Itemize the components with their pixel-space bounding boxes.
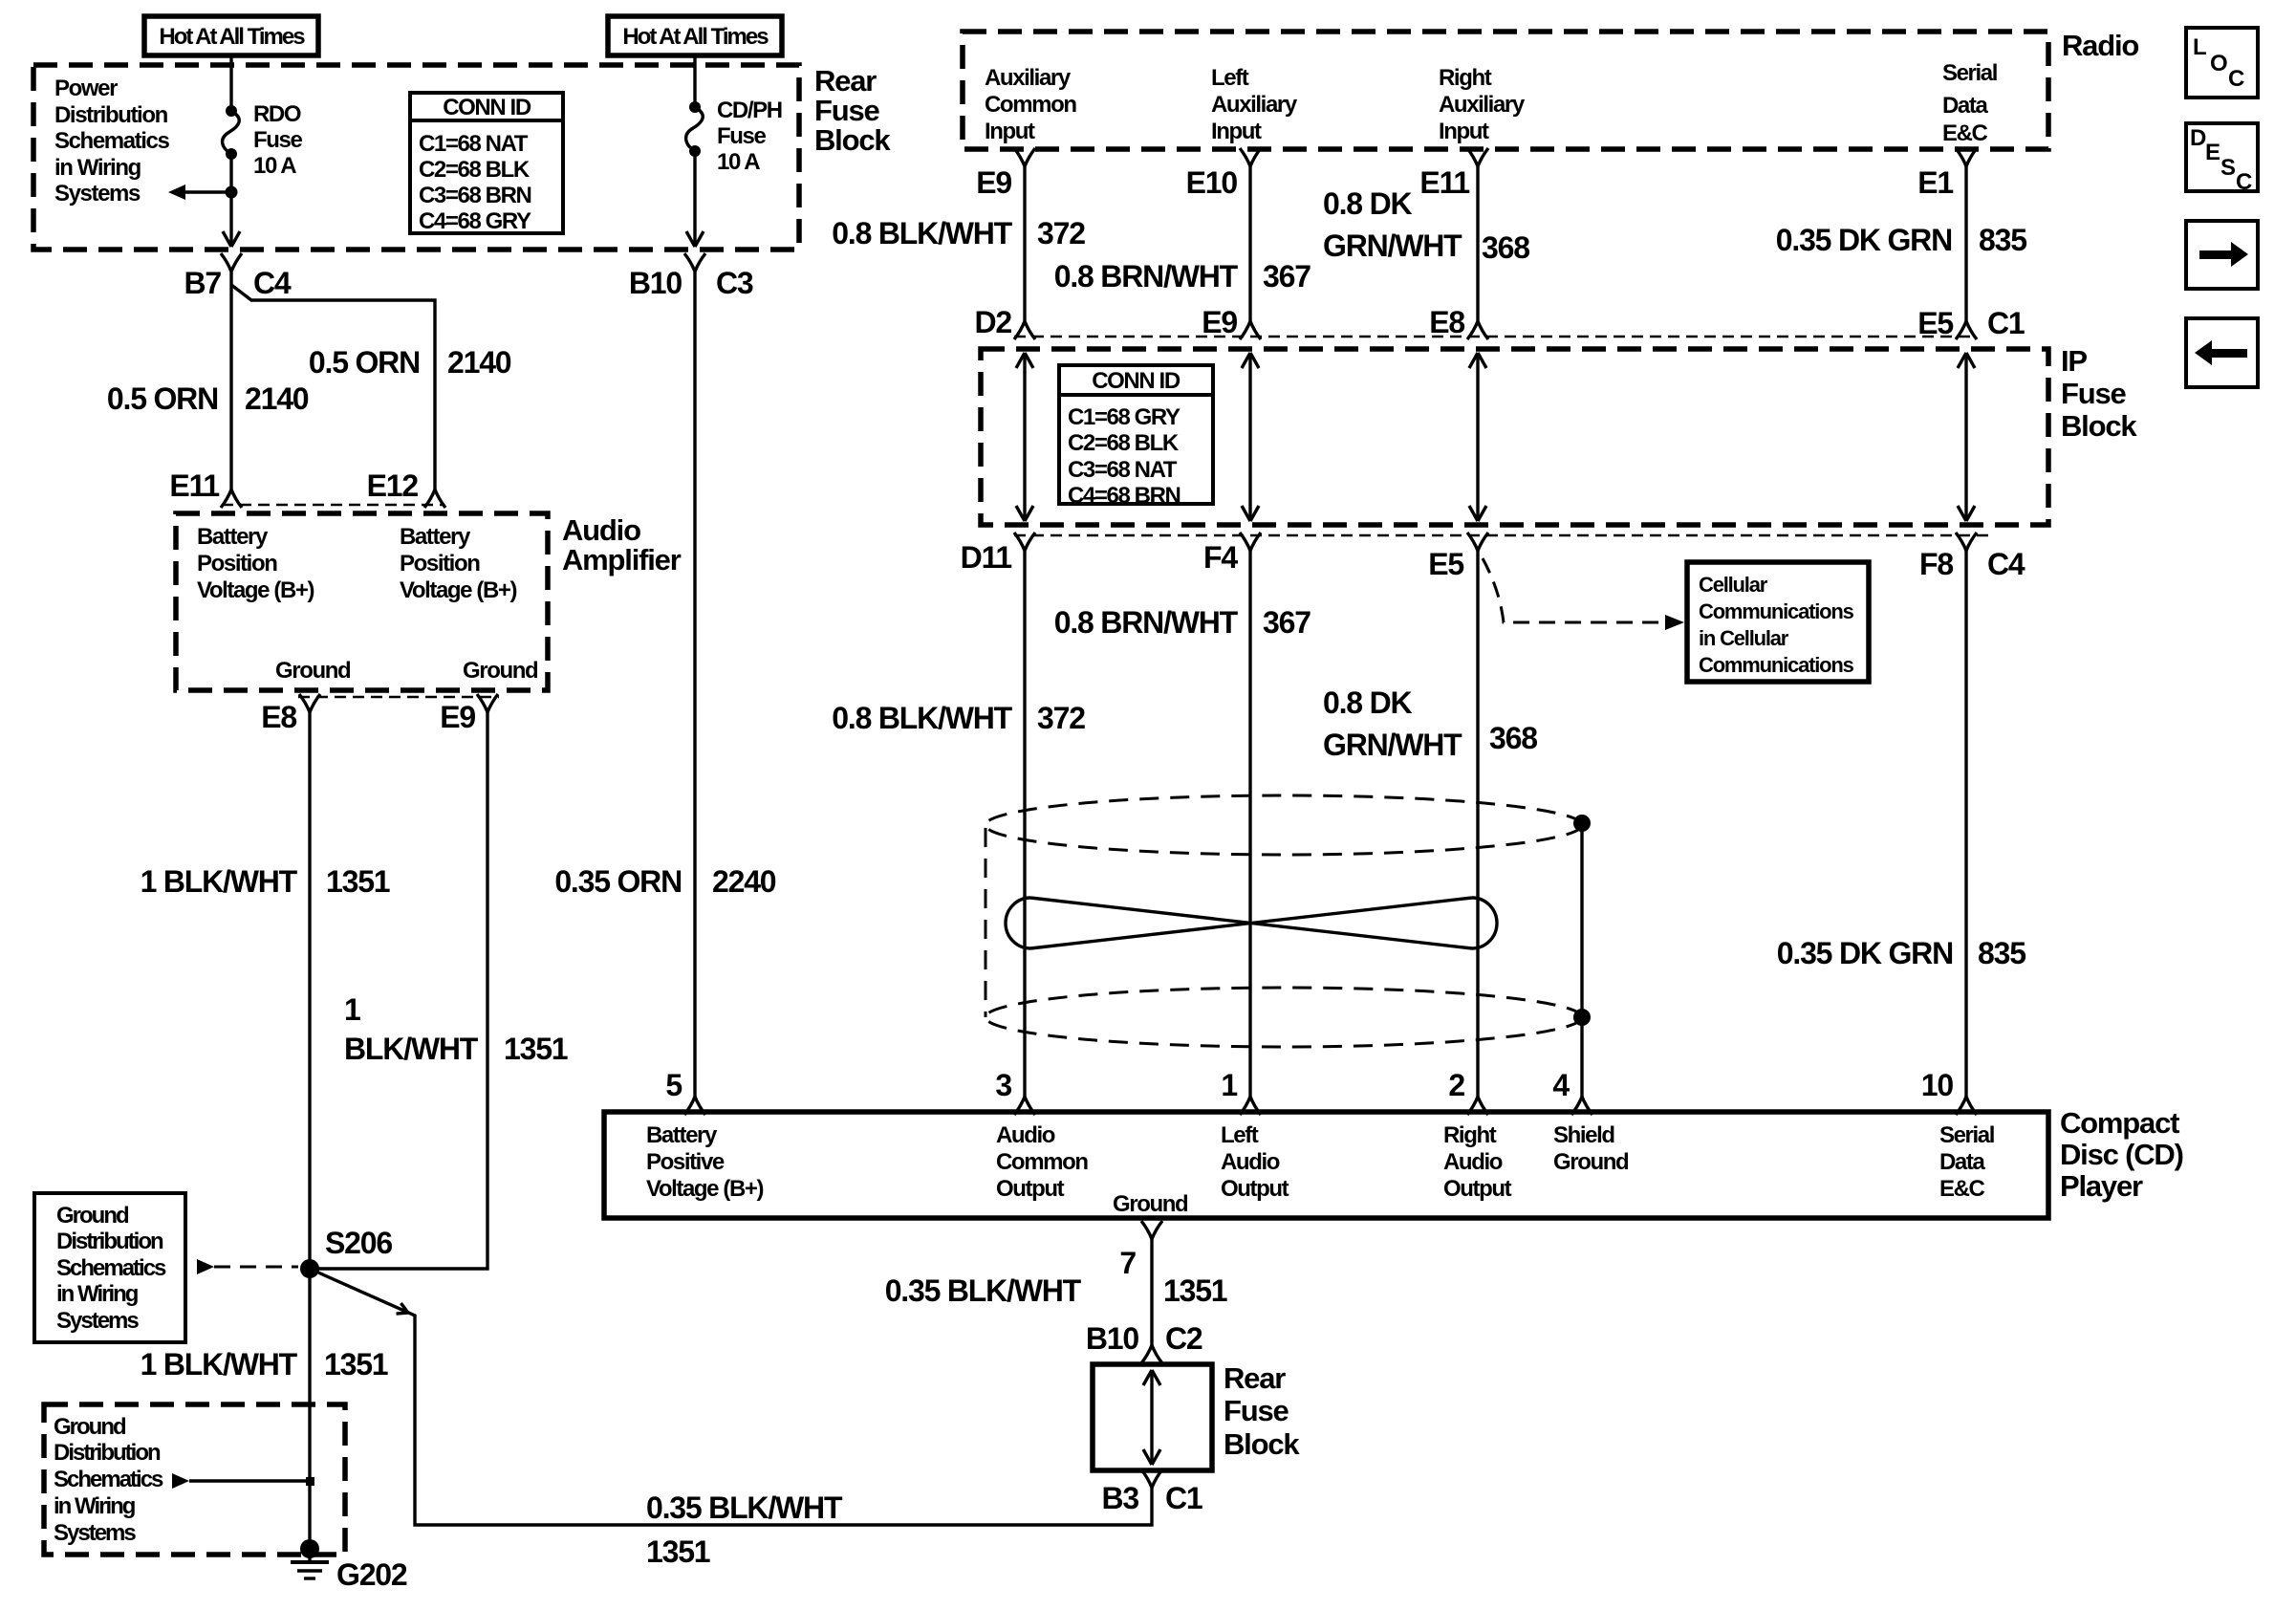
svg-text:Serial: Serial [1939, 1122, 1994, 1148]
svg-text:E8: E8 [261, 700, 296, 734]
svg-text:D: D [2190, 125, 2206, 151]
svg-text:1: 1 [1221, 1068, 1237, 1102]
svg-text:in Cellular: in Cellular [1699, 626, 1789, 650]
svg-text:Ground: Ground [275, 658, 351, 684]
svg-text:E: E [2205, 140, 2220, 165]
label IP Fuse Block [2061, 344, 2137, 443]
svg-text:B10: B10 [629, 266, 682, 300]
fuse CD/PH 10A [686, 98, 782, 175]
svg-text:0.8 DK: 0.8 DK [1323, 186, 1412, 221]
svg-text:E&C: E&C [1939, 1176, 1985, 1202]
cellular communications box [1687, 562, 1869, 682]
connector E1 radio [1917, 148, 1977, 200]
svg-text:D11: D11 [961, 540, 1012, 575]
svg-text:CONN ID: CONN ID [1092, 368, 1180, 394]
ip fuse block dashed box [981, 349, 2048, 525]
svg-text:C4=68 GRY: C4=68 GRY [419, 208, 531, 234]
svg-text:1351: 1351 [324, 1347, 388, 1382]
svg-text:E&C: E&C [1942, 120, 1988, 146]
wire label 0.35 BLK/WHT 1351 (bottom) [646, 1490, 843, 1569]
svg-text:Compact: Compact [2060, 1106, 2179, 1140]
connector D11 [961, 533, 1035, 575]
wire E9 to S206 [310, 712, 487, 1269]
wire E11 to E8 [1476, 166, 1479, 321]
svg-text:Audio: Audio [562, 513, 640, 547]
svg-text:C: C [2236, 169, 2252, 195]
ground G202 [291, 1539, 407, 1592]
svg-text:Schematics: Schematics [56, 1255, 166, 1281]
connector E9 ip [1202, 305, 1261, 339]
svg-text:E1: E1 [1917, 165, 1953, 200]
svg-text:Shield: Shield [1553, 1122, 1614, 1148]
svg-text:Left: Left [1221, 1122, 1259, 1148]
connector B10 C3 [629, 253, 753, 300]
svg-text:F8: F8 [1919, 547, 1953, 581]
connector F8 C4 [1919, 533, 2025, 581]
wire from hot box 2 [693, 55, 696, 107]
svg-text:E12: E12 [367, 468, 419, 503]
svg-text:Systems: Systems [54, 1520, 136, 1546]
svg-text:E9: E9 [976, 165, 1011, 200]
svg-text:10 A: 10 A [253, 153, 296, 179]
svg-text:3: 3 [995, 1068, 1011, 1102]
svg-text:2: 2 [1448, 1068, 1464, 1102]
svg-text:Radio: Radio [2062, 29, 2138, 62]
svg-text:in Wiring: in Wiring [54, 1493, 136, 1519]
svg-text:1351: 1351 [326, 864, 390, 899]
shield cylinder left edge [985, 828, 987, 1017]
svg-text:Output: Output [1443, 1176, 1512, 1202]
connector E9 amp [440, 694, 498, 734]
svg-text:Input: Input [1439, 119, 1489, 144]
svg-text:S: S [2220, 155, 2236, 181]
svg-text:10 A: 10 A [717, 149, 760, 175]
svg-text:Fuse: Fuse [717, 123, 766, 149]
wire B7 to E11 [229, 272, 232, 490]
pin 4 connector [1552, 1068, 1592, 1115]
connector E5 C1 [1917, 306, 2025, 340]
svg-text:G202: G202 [336, 1557, 407, 1592]
svg-text:Schematics: Schematics [54, 128, 169, 154]
svg-text:Ground: Ground [463, 658, 538, 684]
svg-text:Hot At All Times: Hot At All Times [159, 24, 305, 50]
wire D11 to pin 3 [1023, 551, 1026, 1097]
svg-text:1: 1 [344, 992, 360, 1027]
wire label 1 BLK/WHT 1351 (E9 wire) [344, 992, 568, 1066]
wire label 0.8 BLK/WHT 372 (upper) [832, 216, 1085, 250]
wire label 0.35 DK GRN 835 (upper) [1776, 223, 2026, 257]
svg-text:10: 10 [1921, 1068, 1954, 1102]
wire F8 to pin 10 [1964, 551, 1967, 1097]
connector line radio ip boundary [1014, 336, 1975, 338]
wire label 0.8 BLK/WHT 372 (lower) [832, 701, 1085, 735]
wire from hot box 1 [229, 55, 232, 111]
connector E10 radio [1186, 148, 1261, 200]
svg-text:Common: Common [985, 92, 1076, 118]
compact disc player box [604, 1112, 2048, 1218]
svg-text:Hot At All Times: Hot At All Times [622, 24, 769, 50]
svg-text:in Wiring: in Wiring [56, 1281, 139, 1307]
svg-text:F4: F4 [1203, 540, 1238, 575]
svg-text:Distribution: Distribution [54, 1440, 161, 1466]
svg-text:1 BLK/WHT: 1 BLK/WHT [141, 864, 298, 899]
wire pin 7 to B10 [1150, 1239, 1153, 1345]
svg-text:Battery: Battery [197, 524, 269, 550]
wire E5 to pin 2 [1476, 551, 1479, 1097]
audio amplifier dashed box [176, 513, 548, 690]
svg-text:1 BLK/WHT: 1 BLK/WHT [141, 1347, 298, 1382]
wire branch B7 to E12 [231, 285, 435, 490]
svg-text:Distribution: Distribution [56, 1229, 163, 1254]
wires through ip fuse block [1025, 353, 1966, 521]
ground distribution solid box [34, 1193, 185, 1342]
svg-text:Right: Right [1439, 65, 1492, 91]
svg-text:Communications: Communications [1699, 599, 1854, 623]
pass-through arrows ip bottom [1016, 506, 1975, 521]
svg-text:367: 367 [1263, 605, 1310, 640]
svg-text:367: 367 [1263, 259, 1310, 294]
wire label 0.8 BRN/WHT 367 (lower) [1054, 605, 1310, 640]
svg-text:GRN/WHT: GRN/WHT [1323, 228, 1462, 263]
next arrow box [2186, 221, 2258, 289]
svg-text:Audio: Audio [1221, 1149, 1280, 1175]
svg-text:Cellular: Cellular [1699, 573, 1768, 597]
svg-text:BLK/WHT: BLK/WHT [344, 1032, 479, 1066]
svg-text:S206: S206 [325, 1226, 392, 1260]
ground distribution dashed box [44, 1404, 345, 1555]
svg-text:Audio: Audio [1443, 1149, 1503, 1175]
svg-text:Fuse: Fuse [1224, 1394, 1289, 1427]
wire label 0.5 ORN 2140 (E11 wire) [107, 381, 309, 416]
svg-text:0.5 ORN: 0.5 ORN [309, 345, 420, 380]
svg-text:in Wiring: in Wiring [54, 155, 141, 181]
svg-text:C2: C2 [1165, 1321, 1202, 1356]
svg-text:Input: Input [985, 119, 1035, 144]
pass-through arrows ip top [1016, 353, 1975, 368]
svg-text:Systems: Systems [54, 181, 141, 207]
svg-text:0.8 BRN/WHT: 0.8 BRN/WHT [1054, 605, 1239, 640]
wire E1 to E5 [1964, 166, 1967, 321]
svg-text:Player: Player [2060, 1169, 2143, 1203]
label Rear Fuse Block (lower) [1224, 1361, 1300, 1461]
shield ground wire [1580, 823, 1583, 1097]
svg-text:Communications: Communications [1699, 653, 1854, 677]
svg-text:5: 5 [665, 1068, 682, 1102]
svg-text:C3=68 NAT: C3=68 NAT [1068, 457, 1178, 483]
svg-text:0.35 DK GRN: 0.35 DK GRN [1777, 936, 1953, 970]
connector line amp top [222, 504, 444, 507]
connector E8 ip [1429, 305, 1488, 339]
svg-text:Block: Block [1224, 1427, 1300, 1461]
svg-text:Serial: Serial [1942, 60, 1997, 86]
wire label 1 BLK/WHT 1351 [141, 864, 390, 899]
svg-text:C3: C3 [716, 266, 753, 300]
label Compact Disc (CD) Player [2060, 1106, 2183, 1203]
wire E10 to E9 [1248, 166, 1251, 321]
connector D2 [974, 305, 1035, 339]
rear fuse block (power distribution) dashed box [33, 65, 799, 250]
pin 1 connector [1221, 1068, 1261, 1115]
pin 10 connector [1921, 1068, 1977, 1115]
svg-text:IP: IP [2061, 344, 2087, 378]
svg-text:372: 372 [1037, 701, 1085, 735]
svg-text:Fuse: Fuse [814, 94, 880, 127]
svg-text:0.35 BLK/WHT: 0.35 BLK/WHT [885, 1273, 1082, 1308]
pin 7 connector [1119, 1221, 1162, 1280]
wire label 0.8 BRN/WHT 367 (upper) [1054, 259, 1310, 294]
connector F4 [1203, 533, 1261, 575]
svg-text:Position: Position [197, 551, 277, 577]
wire S206 diagonal to rear fuse block [310, 1269, 1152, 1525]
svg-text:2240: 2240 [712, 864, 776, 899]
svg-text:Voltage (B+): Voltage (B+) [646, 1176, 764, 1202]
connector B3 C1 [1101, 1469, 1202, 1515]
svg-text:4: 4 [1552, 1068, 1570, 1102]
conn id table 2 [1059, 365, 1213, 509]
svg-text:E11: E11 [169, 468, 219, 503]
dashed leader to S206 [197, 1259, 298, 1274]
svg-text:835: 835 [1979, 223, 2026, 257]
svg-text:Battery: Battery [400, 524, 471, 550]
svg-text:Audio: Audio [996, 1122, 1055, 1148]
svg-text:2140: 2140 [447, 345, 511, 380]
svg-text:RDO: RDO [253, 101, 301, 127]
rear fuse block box [1093, 1364, 1212, 1470]
svg-text:Positive: Positive [646, 1149, 725, 1175]
svg-text:C2=68 BLK: C2=68 BLK [419, 157, 531, 183]
svg-text:Voltage (B+): Voltage (B+) [400, 577, 517, 603]
connector E12 [367, 468, 445, 508]
svg-text:Right: Right [1443, 1122, 1497, 1148]
svg-text:C1=68 NAT: C1=68 NAT [419, 131, 529, 157]
conn id table 1 [410, 93, 563, 234]
svg-text:E9: E9 [1202, 305, 1237, 339]
radio dashed box [963, 32, 2048, 149]
wire below RDO fuse [229, 154, 232, 245]
svg-text:E5: E5 [1917, 306, 1953, 340]
back arrow box [2186, 318, 2258, 387]
svg-text:E5: E5 [1428, 547, 1463, 581]
shield cylinder top ellipse [986, 795, 1582, 855]
svg-text:Amplifier: Amplifier [562, 543, 682, 577]
svg-text:0.35 DK GRN: 0.35 DK GRN [1776, 223, 1952, 257]
svg-text:Data: Data [1939, 1149, 1985, 1175]
connector E9 radio [976, 148, 1035, 200]
hot at all times box 2 [608, 16, 782, 55]
svg-text:0.8 BRN/WHT: 0.8 BRN/WHT [1054, 259, 1239, 294]
svg-text:E11: E11 [1419, 165, 1469, 200]
svg-text:Systems: Systems [56, 1308, 139, 1334]
shield junction dot bottom [1573, 1009, 1591, 1026]
connector E8 [261, 694, 320, 734]
connector E5 lower [1428, 533, 1488, 581]
svg-text:1351: 1351 [504, 1032, 568, 1066]
svg-text:Rear: Rear [814, 64, 877, 98]
svg-text:0.35 BLK/WHT: 0.35 BLK/WHT [646, 1490, 843, 1525]
svg-text:Output: Output [1221, 1176, 1289, 1202]
wire label 0.8 DK GRN/WHT 368 (upper) [1323, 186, 1529, 265]
svg-text:C1: C1 [1987, 306, 2025, 340]
arrow exiting box at B10 [686, 231, 704, 247]
svg-text:E8: E8 [1429, 305, 1464, 339]
svg-text:C4=68 BRN: C4=68 BRN [1068, 483, 1180, 509]
svg-text:Left: Left [1211, 65, 1249, 91]
svg-text:Ground: Ground [54, 1414, 126, 1440]
wire label 0.35 BLK/WHT 1351 [885, 1273, 1227, 1308]
svg-text:Power: Power [54, 76, 118, 101]
svg-text:CD/PH: CD/PH [717, 98, 782, 123]
label Audio Amplifier [562, 513, 682, 577]
svg-text:C3=68 BRN: C3=68 BRN [419, 183, 531, 208]
svg-text:C2=68 BLK: C2=68 BLK [1068, 430, 1180, 456]
svg-text:Output: Output [996, 1176, 1065, 1202]
svg-text:2140: 2140 [245, 381, 309, 416]
junction and branch arrow to power distribution [168, 185, 238, 200]
svg-text:Auxiliary: Auxiliary [985, 65, 1072, 91]
svg-text:B10: B10 [1086, 1321, 1139, 1356]
wire B10 to pin 5 [693, 272, 696, 1097]
svg-text:Disc (CD): Disc (CD) [2060, 1138, 2183, 1171]
svg-text:Distribution: Distribution [54, 102, 168, 128]
leader to ground wire [172, 1473, 314, 1489]
svg-text:835: 835 [1978, 936, 2025, 970]
svg-text:7: 7 [1119, 1246, 1136, 1280]
connector E11 [169, 468, 242, 508]
svg-text:Block: Block [814, 123, 891, 157]
hot at all times box 1 [144, 16, 318, 55]
dashed leader to cellular communications [1483, 558, 1684, 630]
svg-text:Schematics: Schematics [54, 1467, 163, 1492]
svg-text:Block: Block [2061, 409, 2137, 443]
svg-text:368: 368 [1482, 230, 1529, 265]
svg-text:D2: D2 [974, 305, 1011, 339]
svg-text:B3: B3 [1101, 1481, 1138, 1515]
wire label 1 BLK/WHT 1351 (lower) [141, 1347, 388, 1382]
svg-text:1351: 1351 [1163, 1273, 1227, 1308]
svg-text:Fuse: Fuse [2061, 377, 2127, 410]
svg-text:Data: Data [1942, 93, 1988, 119]
svg-text:Ground: Ground [56, 1203, 129, 1229]
svg-text:Battery: Battery [646, 1122, 718, 1148]
twisted pair symbol [1006, 898, 1497, 948]
svg-text:Rear: Rear [1224, 1361, 1286, 1395]
shield junction dot top [1573, 815, 1591, 832]
svg-text:Ground: Ground [1113, 1191, 1188, 1217]
connector E11 radio [1419, 148, 1488, 200]
svg-text:Common: Common [996, 1149, 1088, 1175]
svg-text:Voltage (B+): Voltage (B+) [197, 577, 314, 603]
svg-text:Fuse: Fuse [253, 127, 302, 153]
svg-text:Input: Input [1211, 119, 1262, 144]
svg-text:E10: E10 [1186, 165, 1238, 200]
wire label 0.5 ORN 2140 (E12 branch) [309, 345, 511, 380]
connector B7 C4 [184, 253, 291, 300]
desc box [2186, 123, 2258, 195]
wire label 0.8 DK GRN/WHT 368 (lower) [1323, 685, 1537, 762]
svg-text:1351: 1351 [646, 1534, 710, 1569]
svg-text:Position: Position [400, 551, 480, 577]
pin 5 connector [665, 1068, 705, 1115]
svg-text:Auxiliary: Auxiliary [1439, 92, 1526, 118]
svg-text:O: O [2210, 51, 2227, 76]
svg-text:C4: C4 [1987, 547, 2025, 581]
svg-text:E9: E9 [440, 700, 475, 734]
connector line amp bottom [298, 696, 499, 699]
connector line ip bottom boundary [1014, 534, 1993, 537]
splice S206 [300, 1226, 392, 1278]
loc box [2186, 28, 2258, 98]
fuse RDO 10A [223, 101, 303, 179]
wire E9 to D2 [1023, 166, 1026, 321]
svg-text:GRN/WHT: GRN/WHT [1323, 728, 1462, 762]
svg-text:372: 372 [1037, 216, 1085, 250]
wire label 0.35 DK GRN 835 (lower) [1777, 936, 2025, 970]
svg-text:C4: C4 [253, 266, 292, 300]
wire label 0.35 ORN 2240 [554, 864, 775, 899]
svg-text:Auxiliary: Auxiliary [1211, 92, 1298, 118]
svg-text:0.8 BLK/WHT: 0.8 BLK/WHT [832, 701, 1012, 735]
connector B10 C2 [1086, 1321, 1202, 1363]
svg-text:0.5 ORN: 0.5 ORN [107, 381, 218, 416]
svg-text:Ground: Ground [1553, 1149, 1629, 1175]
wire E8 to G202 [308, 712, 311, 1549]
svg-text:B7: B7 [184, 266, 221, 300]
svg-text:CONN ID: CONN ID [443, 95, 531, 120]
svg-text:0.35 ORN: 0.35 ORN [554, 864, 682, 899]
pin 3 connector [995, 1068, 1035, 1115]
pin 2 connector [1448, 1068, 1488, 1115]
label Rear Fuse Block [814, 64, 891, 157]
svg-text:L: L [2193, 34, 2206, 60]
svg-text:0.8 DK: 0.8 DK [1323, 685, 1412, 720]
svg-text:C1: C1 [1165, 1481, 1202, 1515]
wire F4 to pin 1 [1248, 551, 1251, 1097]
svg-text:0.8 BLK/WHT: 0.8 BLK/WHT [832, 216, 1012, 250]
arrow exiting box at B7 [223, 231, 240, 247]
svg-text:C: C [2228, 66, 2244, 92]
shield cylinder bottom ellipse [986, 988, 1582, 1047]
wire below CD/PH fuse [693, 151, 696, 245]
svg-text:C1=68 GRY: C1=68 GRY [1068, 404, 1180, 430]
svg-text:368: 368 [1489, 721, 1537, 755]
